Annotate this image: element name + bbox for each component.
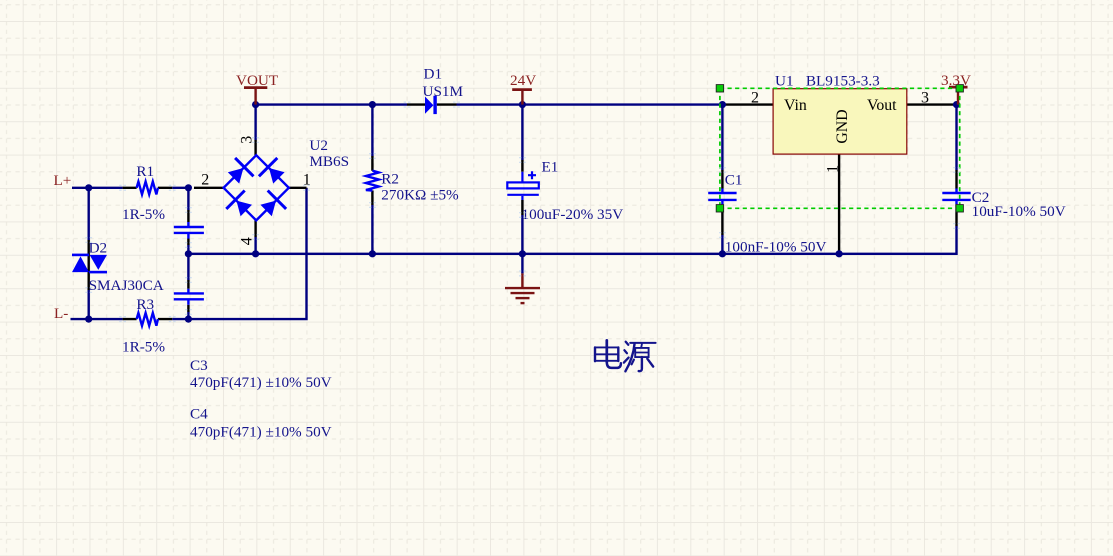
svg-text:R3: R3 — [136, 296, 154, 313]
svg-text:24V: 24V — [510, 72, 536, 89]
svg-text:VOUT: VOUT — [236, 72, 279, 89]
svg-text:C3: C3 — [190, 357, 208, 374]
svg-text:U2: U2 — [309, 137, 328, 154]
svg-text:1R-5%: 1R-5% — [122, 339, 165, 356]
svg-text:R1: R1 — [136, 163, 154, 180]
svg-text:Vout: Vout — [867, 97, 897, 114]
svg-text:2: 2 — [201, 172, 209, 189]
svg-text:100uF-20% 35V: 100uF-20% 35V — [522, 206, 624, 223]
svg-text:470pF(471) ±10% 50V: 470pF(471) ±10% 50V — [190, 374, 332, 391]
svg-text:270KΩ ±5%: 270KΩ ±5% — [381, 187, 459, 204]
svg-text:C4: C4 — [190, 405, 208, 422]
svg-text:US1M: US1M — [423, 83, 464, 100]
svg-text:1: 1 — [825, 165, 842, 173]
svg-text:D1: D1 — [424, 65, 443, 82]
svg-text:2: 2 — [751, 90, 759, 107]
svg-text:100nF-10% 50V: 100nF-10% 50V — [725, 239, 827, 256]
svg-text:SMAJ30CA: SMAJ30CA — [89, 277, 164, 294]
svg-text:R2: R2 — [381, 171, 399, 188]
svg-text:E1: E1 — [542, 158, 559, 175]
svg-text:L+: L+ — [54, 172, 72, 189]
svg-text:3.3V: 3.3V — [941, 72, 971, 89]
svg-text:3: 3 — [921, 90, 929, 107]
svg-text:MB6S: MB6S — [309, 153, 349, 170]
svg-text:BL9153-3.3: BL9153-3.3 — [806, 72, 880, 89]
svg-text:L-: L- — [54, 305, 68, 322]
svg-text:1: 1 — [303, 172, 311, 189]
svg-text:10uF-10% 50V: 10uF-10% 50V — [972, 203, 1066, 220]
svg-text:GND: GND — [834, 109, 851, 143]
svg-text:1R-5%: 1R-5% — [122, 206, 165, 223]
svg-text:C1: C1 — [725, 171, 743, 188]
svg-text:4: 4 — [239, 237, 256, 245]
svg-text:470pF(471) ±10% 50V: 470pF(471) ±10% 50V — [190, 423, 332, 440]
svg-text:Vin: Vin — [784, 97, 807, 114]
svg-text:U1: U1 — [775, 72, 794, 89]
